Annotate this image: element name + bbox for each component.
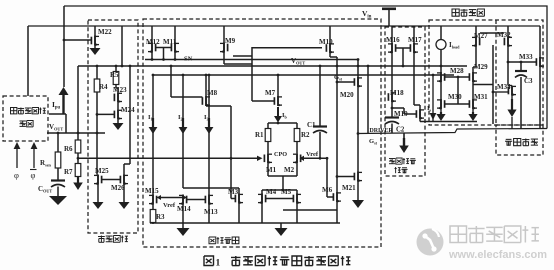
label 动态频率 line1 bbox=[389, 157, 395, 159]
ground under M22 bbox=[94, 46, 96, 49]
wire bias rail bbox=[153, 74, 454, 76]
divider dashed inside sampling box bbox=[495, 20, 497, 125]
transistor M9 bbox=[223, 26, 225, 43]
svg-text:M17: M17 bbox=[408, 36, 422, 44]
wire M19 gate to M18 node bbox=[392, 107, 404, 109]
transistor M33 bbox=[539, 57, 541, 67]
wire M12 M11 gate tie to SN bbox=[156, 47, 172, 49]
svg-text:M12: M12 bbox=[146, 38, 160, 46]
svg-text:M33: M33 bbox=[519, 53, 533, 61]
label 电流采样 current sampling bbox=[452, 9, 459, 16]
svg-text:Ipu: Ipu bbox=[52, 100, 61, 111]
svg-text:M7: M7 bbox=[265, 89, 276, 97]
svg-text:M10: M10 bbox=[319, 38, 333, 46]
wire M27 M32 tie bbox=[480, 32, 504, 34]
transistor M30 bbox=[440, 82, 442, 99]
current source I3 column bbox=[208, 75, 210, 188]
svg-text:M4: M4 bbox=[266, 188, 277, 196]
svg-text:M22: M22 bbox=[98, 28, 112, 36]
ground under M26 bbox=[123, 185, 125, 203]
wire M4 M5 gate tie bbox=[266, 198, 294, 200]
wire M14 M13 mirror top bar bbox=[183, 187, 239, 189]
wire M27 drain to M29 bbox=[475, 47, 477, 68]
svg-text:M8: M8 bbox=[207, 89, 218, 97]
label 差分运放 differential opamp bbox=[209, 237, 216, 244]
label 补偿 line2 bbox=[395, 167, 397, 173]
transistor M10 bbox=[329, 26, 331, 43]
wire M28 M29 gate tie bbox=[445, 76, 470, 78]
svg-text:VOUT: VOUT bbox=[291, 57, 305, 66]
wire M10 drain to M6 bbox=[329, 53, 331, 57]
current arrow Ipu bbox=[62, 94, 64, 114]
wire M19 drain out bbox=[419, 119, 421, 122]
wire left drop from VDD rail to charge pump bbox=[27, 26, 29, 96]
caption 图1 bbox=[204, 256, 214, 266]
svg-text:1: 1 bbox=[216, 259, 221, 269]
wire Vout main rail bbox=[78, 65, 467, 67]
svg-text:M9: M9 bbox=[225, 37, 236, 45]
svg-text:C3: C3 bbox=[524, 77, 533, 85]
transistor M11 bbox=[174, 26, 176, 43]
svg-text:M2: M2 bbox=[284, 166, 295, 174]
block error amplifier main box bbox=[143, 19, 381, 247]
wire M33 drain column bbox=[539, 26, 541, 57]
arrow under M34 bbox=[511, 96, 513, 100]
resistor R6 bbox=[75, 140, 81, 153]
svg-text:C2: C2 bbox=[396, 127, 405, 134]
resistor R1 bbox=[267, 123, 269, 129]
svg-text:VOUT: VOUT bbox=[49, 123, 63, 132]
transistor M14 bbox=[182, 195, 184, 205]
wire M9 loop to M7 gate bbox=[251, 64, 253, 101]
capacitor C3 bbox=[520, 62, 522, 71]
wire M9 diode loop bbox=[223, 53, 225, 65]
svg-text:R3: R3 bbox=[156, 213, 165, 221]
block charge-pump module box bbox=[3, 96, 48, 141]
wire M32 drain down to M34 bbox=[507, 47, 509, 86]
wire M8 gate bend bbox=[171, 96, 202, 98]
wire feedback line to diff amp bbox=[78, 157, 258, 159]
transistor M22 bbox=[94, 26, 96, 36]
transistor M29 bbox=[472, 72, 474, 82]
wire VDD drop to Vout rail bbox=[121, 26, 123, 66]
wire M16 M17 gate tie bbox=[396, 47, 411, 49]
svg-text:I1: I1 bbox=[148, 114, 153, 122]
transistor M21 bbox=[357, 172, 359, 182]
svg-text:φ: φ bbox=[14, 170, 19, 180]
transistor M13 bbox=[208, 195, 210, 205]
svg-text:φ: φ bbox=[31, 170, 36, 180]
svg-text:C1: C1 bbox=[307, 121, 316, 129]
wire M14 M13 gate tie bbox=[187, 199, 206, 201]
resistor R4 bbox=[96, 66, 98, 79]
wire vertical from top rail to Ipu arrow bbox=[63, 6, 65, 87]
transistor M17 bbox=[413, 26, 415, 43]
arrow ground under M31 bbox=[472, 109, 474, 112]
wire Vref line with arrows bbox=[159, 197, 184, 199]
svg-text:M31: M31 bbox=[474, 93, 488, 101]
VDD rail bbox=[28, 25, 540, 27]
svg-text:M23: M23 bbox=[113, 86, 127, 94]
svg-text:www.elecfans.com: www.elecfans.com bbox=[448, 249, 547, 261]
current source I2 column bbox=[182, 75, 184, 188]
current arrow Is bbox=[430, 113, 437, 120]
transistor M2 bbox=[296, 142, 298, 154]
svg-text:Ib: Ib bbox=[282, 112, 288, 120]
block dynamic frequency compensation box bbox=[385, 27, 425, 176]
capacitor C1 bbox=[319, 66, 321, 126]
wire M8 source to M1 gate column bbox=[206, 105, 231, 107]
svg-text:Gst: Gst bbox=[369, 138, 378, 146]
wire R1 R2 top bar bbox=[268, 122, 297, 124]
wire diff pair tail bbox=[267, 163, 269, 176]
capacitor C2 bbox=[385, 116, 399, 118]
transistor M18 bbox=[391, 92, 393, 102]
transistor M26 bbox=[123, 175, 125, 185]
transistor M4 bbox=[261, 194, 263, 204]
wire M33 gate line bbox=[508, 61, 536, 63]
svg-text:M26: M26 bbox=[111, 184, 125, 192]
transistor M24 bbox=[117, 102, 119, 109]
svg-text:CPO: CPO bbox=[274, 151, 287, 158]
resistor R7 bbox=[75, 164, 81, 177]
svg-text:M18: M18 bbox=[390, 89, 404, 97]
arrow ground under R7 bbox=[77, 177, 79, 184]
svg-text:M13: M13 bbox=[204, 208, 218, 216]
wire Vref to M2 gate bbox=[303, 157, 327, 159]
node Gst driver line bbox=[358, 129, 547, 134]
current source I1 column bbox=[152, 75, 154, 195]
resistor Rsen bbox=[57, 133, 59, 152]
wire R4 col to M25 jog bbox=[97, 169, 98, 171]
svg-text:M28: M28 bbox=[450, 67, 464, 75]
ground symbol left bbox=[182, 223, 184, 228]
arrow to compensation ground bbox=[403, 133, 405, 139]
ground under M25 bbox=[97, 185, 99, 203]
label 模块 line2 bbox=[20, 120, 26, 122]
wire M3 gate from feedback bbox=[230, 158, 232, 198]
caption 误差放大器及其附加电路 bbox=[231, 256, 241, 258]
svg-text:M30: M30 bbox=[448, 93, 462, 101]
current arrow Ib to R1 R2 bbox=[277, 107, 279, 117]
svg-text:I3: I3 bbox=[204, 114, 209, 122]
wire M12 M11 drains to SN bbox=[151, 53, 153, 60]
block current sampling box bbox=[429, 20, 543, 125]
transistor M8 bbox=[205, 75, 207, 96]
transistor M34 bbox=[508, 85, 512, 87]
svg-text:Vref: Vref bbox=[306, 151, 319, 158]
transistor M27 bbox=[475, 26, 477, 37]
svg-text:I2: I2 bbox=[178, 114, 183, 122]
svg-text:M11: M11 bbox=[163, 38, 177, 46]
wire M20 source to M21 drain bbox=[357, 87, 359, 172]
svg-text:DRIVER: DRIVER bbox=[370, 128, 394, 134]
resistor R3 bbox=[152, 205, 154, 210]
svg-text:Iload: Iload bbox=[449, 41, 460, 50]
resistor R5 bbox=[115, 66, 117, 72]
transistor M15 bbox=[152, 195, 154, 205]
transistor M1 bbox=[267, 142, 269, 154]
label 启动电路 startup circuit bbox=[98, 236, 105, 238]
svg-text:R6: R6 bbox=[64, 145, 73, 153]
svg-text:M20: M20 bbox=[340, 91, 354, 99]
transistor M32 bbox=[507, 26, 509, 37]
svg-text:M24: M24 bbox=[121, 106, 135, 114]
svg-text:Vin: Vin bbox=[362, 9, 372, 20]
svg-text:R5: R5 bbox=[110, 71, 119, 79]
wire Vout rail riser bbox=[77, 66, 79, 140]
wire R4 to M24 gate and M25 drain bbox=[96, 92, 98, 175]
ground under M21 bbox=[357, 182, 359, 201]
transistor M20 bbox=[357, 77, 359, 87]
svg-text:M34: M34 bbox=[497, 83, 511, 91]
wire riser x368 bbox=[367, 66, 369, 133]
label 恒流电荷泵 (charge pump) line1 bbox=[11, 108, 17, 114]
power symbol Vin bbox=[382, 8, 396, 11]
transistor M28 bbox=[440, 72, 442, 82]
wire sampling bottom bar bbox=[433, 121, 477, 123]
top supply rail Vin bbox=[64, 6, 547, 129]
ground under M24 bbox=[117, 119, 119, 123]
transistor M5 bbox=[296, 194, 298, 204]
svg-text:R1: R1 bbox=[255, 131, 264, 139]
block startup circuit box bbox=[88, 20, 138, 233]
transistor M25 bbox=[97, 175, 99, 185]
svg-text:M25: M25 bbox=[95, 167, 109, 175]
svg-text:M16: M16 bbox=[386, 36, 400, 44]
wire M17 drain to M19 bbox=[413, 53, 415, 105]
transistor M12 bbox=[151, 26, 153, 43]
transistor M16 bbox=[391, 26, 393, 43]
wire M26 drain riser bbox=[129, 66, 131, 164]
svg-text:Rsen: Rsen bbox=[40, 159, 52, 168]
svg-text:M3: M3 bbox=[228, 188, 239, 196]
svg-text:R7: R7 bbox=[64, 168, 73, 176]
capacitor Cout bbox=[57, 168, 59, 180]
wire M29 drain to divider column bbox=[473, 84, 493, 86]
label 过流保护 overcurrent protection bbox=[506, 138, 512, 140]
wire M18 source to C2 bbox=[391, 102, 393, 117]
wire M9 to M10 gate line bbox=[252, 47, 322, 49]
svg-text:M21: M21 bbox=[342, 184, 356, 192]
wire Vout output line bbox=[47, 132, 105, 134]
ground symbol right bbox=[280, 223, 282, 228]
wire M4 M5 M6 source bar bbox=[283, 209, 337, 211]
svg-text:M32: M32 bbox=[497, 31, 511, 39]
svg-text:M15: M15 bbox=[145, 187, 159, 195]
svg-text:COUT: COUT bbox=[38, 185, 52, 194]
svg-text:R4: R4 bbox=[99, 83, 108, 91]
ground under Cout bbox=[57, 187, 59, 197]
transistor M23 bbox=[117, 88, 119, 92]
transistor M31 bbox=[472, 82, 474, 99]
transistor M7 bbox=[277, 75, 279, 96]
svg-text:Vref: Vref bbox=[163, 202, 176, 209]
transistor M19 bbox=[419, 109, 421, 119]
watermark text 电子发烧友 bbox=[450, 226, 467, 243]
svg-text:Is: Is bbox=[427, 105, 432, 113]
transistor M3 bbox=[238, 194, 240, 204]
wire M25 M26 gates tie bbox=[102, 179, 121, 181]
transistor M6 bbox=[336, 192, 338, 202]
wire ground rail of diff amp bbox=[150, 222, 340, 224]
wire M16 drain to M18 bbox=[391, 53, 393, 92]
arrow ground under M30 bbox=[440, 109, 442, 112]
wire M30 M31 gate tie bbox=[445, 103, 470, 105]
watermark logo circle bbox=[417, 229, 444, 256]
wire R6-R7 junction feedback bbox=[77, 153, 79, 164]
block overcurrent protection box bbox=[496, 125, 543, 155]
svg-text:M14: M14 bbox=[177, 205, 191, 213]
clock phase arrows into charge pump bbox=[16, 149, 18, 168]
wire charge pump output to Vout node bbox=[49, 113, 66, 115]
resistor R2 bbox=[296, 123, 298, 129]
current source Iload bbox=[440, 26, 442, 40]
svg-text:R2: R2 bbox=[301, 131, 310, 139]
wire M4 M5 drain bar bbox=[262, 189, 297, 191]
